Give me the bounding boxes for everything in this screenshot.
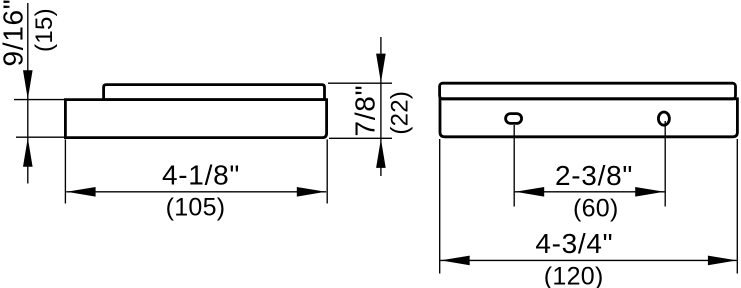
4-1/8 extension line left xyxy=(64,139,66,203)
4-3/4 extension line right xyxy=(736,139,738,274)
svg-text:(60): (60) xyxy=(573,195,619,223)
2-3/8 dimension line xyxy=(515,191,665,193)
4-1/8 extension line right xyxy=(326,139,328,203)
7/8 extension line bottom xyxy=(329,137,392,139)
svg-text:4-1/8": 4-1/8" xyxy=(162,160,240,191)
svg-text:2-3/8": 2-3/8" xyxy=(555,160,633,191)
9/16 extension line top xyxy=(14,99,66,101)
7/8 arrow up xyxy=(376,139,386,168)
4-1/8 dimension line xyxy=(66,191,326,193)
svg-text:4-3/4": 4-3/4" xyxy=(535,228,613,259)
7/8 dimension line xyxy=(380,37,382,176)
9/16 extension line bottom xyxy=(16,136,66,138)
9/16 dimension line xyxy=(27,3,29,184)
7/8 extension line top xyxy=(328,82,392,84)
4-3/4 arrow right xyxy=(708,256,737,266)
2-3/8 extension line left xyxy=(513,125,515,207)
front view body xyxy=(440,99,737,137)
side view top plate xyxy=(104,85,325,100)
svg-text:9/16": 9/16" xyxy=(0,0,28,67)
svg-text:(120): (120) xyxy=(544,262,604,288)
svg-text:(105): (105) xyxy=(166,194,226,222)
front view top plate strip xyxy=(440,83,736,99)
9/16 arrow down xyxy=(23,70,33,99)
side view body (front lip) xyxy=(65,100,326,138)
4-3/4 arrow left xyxy=(441,256,470,266)
9/16 arrow up xyxy=(23,138,33,167)
2-3/8 extension line right xyxy=(664,121,666,207)
svg-text:(15): (15) xyxy=(31,8,58,52)
7/8 arrow down xyxy=(376,54,386,83)
4-1/8 arrow right xyxy=(297,187,326,197)
right round hole xyxy=(658,112,669,125)
2-3/8 arrow left xyxy=(515,187,544,197)
4-3/4 dimension line xyxy=(440,259,736,261)
svg-text:7/8": 7/8" xyxy=(350,85,381,137)
4-3/4 extension line left xyxy=(439,139,441,274)
svg-text:(22): (22) xyxy=(386,91,413,135)
2-3/8 arrow right xyxy=(635,187,664,197)
4-1/8 arrow left xyxy=(67,187,96,197)
left slot hole xyxy=(506,114,522,124)
